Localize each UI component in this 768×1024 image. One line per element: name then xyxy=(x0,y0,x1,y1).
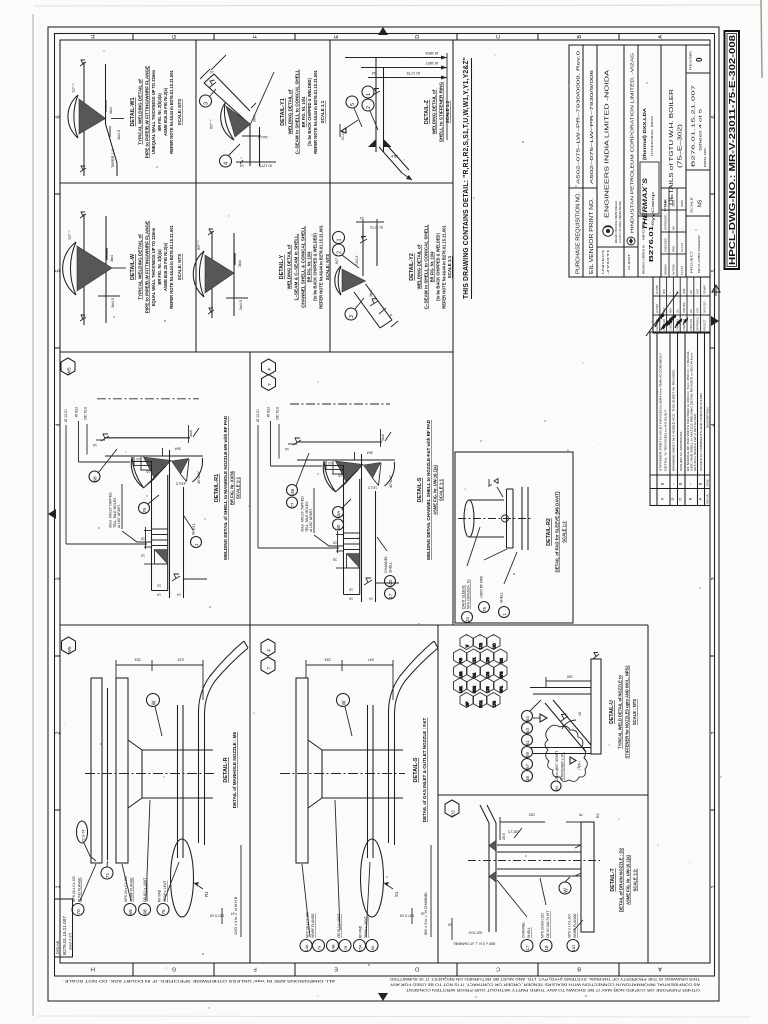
svg-text:A: A xyxy=(658,35,664,39)
svg-text:75: 75 xyxy=(161,909,167,915)
hex cluster xyxy=(454,635,508,708)
svg-text:PROJECT: PROJECT xyxy=(704,319,707,331)
svg-text:(thermal) DXX.LDA: (thermal) DXX.LDA xyxy=(642,107,647,160)
svg-text:2: 2 xyxy=(711,731,717,734)
svg-text:DETAIL of GAS INLET & OUT: DETAIL of GAS INLET & OUTLET NOZZLE : F&… xyxy=(422,718,427,823)
apex dims 3to4 / 1to1.5 xyxy=(105,100,107,112)
svg-text:1: 1 xyxy=(366,93,372,96)
svg-text:DETAIL of PAD for SLEEVE: DETAIL of PAD for SLEEVE (M6 DAVIT) xyxy=(555,491,560,572)
svg-text:DETAIL-Y2: DETAIL-Y2 xyxy=(409,253,415,280)
svg-text:ALTMNI: ALTMNI xyxy=(656,304,659,313)
svg-text:45: 45 xyxy=(578,712,582,716)
svg-text:12: 12 xyxy=(157,584,161,588)
svg-text:DETAIL 'U' REVISED to AS BUILT: DETAIL 'U' REVISED to AS BUILT. xyxy=(664,409,668,471)
dim 100 xyxy=(546,680,591,682)
text block R2 xyxy=(546,491,567,572)
svg-text:28.5: 28.5 xyxy=(502,833,506,840)
svg-text:3to4: 3to4 xyxy=(109,107,113,114)
svg-text:100:1.5: 100:1.5 xyxy=(508,830,519,834)
svg-text:DETAIL-R: DETAIL-R xyxy=(223,757,229,782)
balloon 3 xyxy=(200,95,212,107)
svg-text:16: 16 xyxy=(349,588,353,592)
svg-text:SHELL to STIFFENER RING: SHELL to STIFFENER RING xyxy=(439,82,444,143)
svg-text:WELDING DETAIL of: WELDING DETAIL of xyxy=(288,89,293,134)
svg-text:SCALE: NTS: SCALE: NTS xyxy=(177,99,182,125)
svg-text:DETAIL-S: DETAIL-S xyxy=(413,757,419,782)
svg-text:1: 1 xyxy=(337,238,343,241)
svg-text:BR FIG. Nr. 10/4: BR FIG. Nr. 10/4 xyxy=(301,96,306,127)
svg-text:DETAIL of MANHOLE NOZZLE :: DETAIL of MANHOLE NOZZLE : M5 xyxy=(232,731,237,808)
text block W xyxy=(130,221,182,313)
svg-text:Sheet 4 of 5: Sheet 4 of 5 xyxy=(699,108,703,151)
svg-text:NFO-CBD: NFO-CBD xyxy=(704,301,707,313)
svg-text:75: 75 xyxy=(142,508,148,514)
svg-text:15A: 15A xyxy=(358,944,363,951)
svg-text:OD 610: OD 610 xyxy=(276,407,280,420)
svg-text:1to1.5: 1to1.5 xyxy=(355,255,359,265)
svg-text:DRG.NR.: DRG.NR. xyxy=(703,147,707,167)
svg-text:A502–075–LW–PR–7930/9/006: A502–075–LW–PR–7930/9/006 xyxy=(589,69,594,184)
svg-text:DETAIL of DRAIN NOZZLE :: DETAIL of DRAIN NOZZLE : D2 xyxy=(619,847,624,912)
svg-text:LT5: LT5 xyxy=(486,687,490,693)
balloon 68 xyxy=(89,471,100,482)
svg-text:SCALE : NTS: SCALE : NTS xyxy=(632,699,637,725)
shell cross-section xyxy=(169,450,171,598)
svg-text:79: 79 xyxy=(317,945,322,950)
svg-text:SP: SP xyxy=(465,701,469,706)
weld symbol triangle xyxy=(540,714,547,722)
svg-text:LT4: LT4 xyxy=(486,672,490,678)
svg-text:R1: R1 xyxy=(204,891,209,897)
svg-text:(75–E–302): (75–E–302) xyxy=(678,123,684,168)
svg-text:6: 6 xyxy=(56,115,62,118)
svg-text:A: A xyxy=(658,966,662,972)
svg-text:2: 2 xyxy=(56,731,62,734)
svg-text:10: 10 xyxy=(136,457,140,461)
svg-text:4: 4 xyxy=(711,423,717,426)
svg-text:3: 3 xyxy=(204,102,210,105)
svg-text:W5: W5 xyxy=(67,367,73,375)
svg-text:SP2: SP2 xyxy=(499,672,503,679)
svg-text:OD 610 x 18WT: OD 610 x 18WT xyxy=(337,914,341,938)
svg-text:61: 61 xyxy=(525,740,530,745)
svg-text:DETAIL-Z: DETAIL-Z xyxy=(424,99,430,124)
hex marker W5 xyxy=(61,358,75,375)
centerline xyxy=(468,860,600,862)
svg-text:GB: GB xyxy=(690,290,693,294)
svg-text:ENGINEERS INDIA LIMITED -NOID: ENGINEERS INDIA LIMITED -NOIDA xyxy=(605,69,611,218)
svg-text:WORKS ORDER Nr.: WORKS ORDER Nr. xyxy=(642,244,646,274)
svg-text:STIFFENER for NOZZLES upto: STIFFENER for NOZZLES upto AND INCL. NPS… xyxy=(625,665,630,759)
conical shell diagonal going down-right xyxy=(366,284,393,320)
dims xyxy=(379,308,386,314)
text block W1 xyxy=(130,66,182,158)
svg-text:16: 16 xyxy=(448,923,452,927)
svg-text:W: W xyxy=(564,888,570,893)
svg-text:LG1: LG1 xyxy=(459,686,463,693)
svg-text:14: 14 xyxy=(360,216,364,220)
panel DETAIL-W xyxy=(63,212,182,325)
svg-text:Ø 622: Ø 622 xyxy=(267,407,271,417)
svg-text:SCALE: NTS: SCALE: NTS xyxy=(177,254,182,280)
zone numbers right margin xyxy=(711,115,717,888)
svg-text:ASME FIG. Nr. UW-16.1(a): ASME FIG. Nr. UW-16.1(a) xyxy=(433,464,438,514)
svg-text:860 ± 3 to ⊥ of CHANNEL: 860 ± 3 to ⊥ of CHANNEL xyxy=(424,892,428,935)
svg-text:64: 64 xyxy=(525,716,530,721)
svg-text:11.5.15: 11.5.15 xyxy=(680,242,684,252)
signature grid below title block xyxy=(646,277,710,336)
balloons 14B 77 xyxy=(287,485,298,496)
balloon 75 rf pad xyxy=(479,602,490,613)
svg-text:14D: 14D xyxy=(388,580,393,588)
svg-text:WELDING DETAIL of: WELDING DETAIL of xyxy=(417,244,422,289)
svg-text:DETAIL-S: DETAIL-S xyxy=(417,477,423,502)
svg-text:DET-38 for NOZZLE F&T in DET.S: DET-38 for NOZZLE F&T in DET.SH.SEC. xyxy=(693,413,697,471)
svg-text:at 180° APART.: at 180° APART. xyxy=(309,508,313,532)
svg-text:STIFFENER (PART Nr.90) NT REVI: STIFFENER (PART Nr.90) NT REVISED to 5MM… xyxy=(659,353,663,471)
svg-text:KVS: KVS xyxy=(697,289,700,294)
svg-text:D2: D2 xyxy=(499,658,503,663)
svg-text:F: F xyxy=(253,34,259,38)
svg-text:DETAIL-T: DETAIL-T xyxy=(610,868,616,892)
stiffener diagonal xyxy=(545,703,586,752)
svg-text:SCALE: NTS: SCALE: NTS xyxy=(325,254,330,280)
svg-text:2Nos.@60° APART: 2Nos.@60° APART xyxy=(555,751,559,780)
svg-text:15: 15 xyxy=(333,541,337,545)
svg-text:D: D xyxy=(415,35,421,39)
svg-text:Ø 1210: Ø 1210 xyxy=(64,410,68,422)
svg-text:MNI: MNI xyxy=(670,308,673,313)
svg-text:OD 60.3x8.74 WT: OD 60.3x8.74 WT xyxy=(546,911,550,938)
svg-text:B: B xyxy=(688,497,693,500)
panel DETAIL-R (manhole nozzle M5) xyxy=(62,637,249,937)
extension line past apex xyxy=(251,72,275,124)
svg-text:MFG.NR.: MFG.NR. xyxy=(642,220,646,240)
dim 153/219 xyxy=(116,664,203,666)
panel DETAIL-U xyxy=(454,635,638,792)
svg-text:D2: D2 xyxy=(451,810,456,816)
svg-text:G: G xyxy=(172,35,178,39)
3to4 gap dims xyxy=(188,425,190,443)
svg-text:153: 153 xyxy=(135,658,141,662)
svg-text:HINDUSTAN PETROLEUM CORPORAT: HINDUSTAN PETROLEUM CORPORATION LIMITED,… xyxy=(630,53,636,233)
svg-text:A502–075–LW–PR–7930/0009, Rev: A502–075–LW–PR–7930/0009, Rev.0 xyxy=(576,50,581,184)
svg-text:3: 3 xyxy=(349,315,355,318)
nozzle centerline xyxy=(97,398,199,400)
weld cone Y1 xyxy=(226,106,251,137)
svg-text:CHANNEL SHELL & CONICAL SH: CHANNEL SHELL & CONICAL SHELL xyxy=(301,226,306,308)
svg-text:14: 14 xyxy=(240,164,244,168)
svg-text:L–SEAM & C–SEAM in SHELL,: L–SEAM & C–SEAM in SHELL, xyxy=(294,234,299,301)
svg-text:ASME B16.25 FIG Nr.2(a): ASME B16.25 FIG Nr.2(a) xyxy=(163,242,168,291)
svg-text:CHANNEL: CHANNEL xyxy=(384,556,388,573)
svg-text:AS CONFIDENTIAL INFORMATION IN: AS CONFIDENTIAL INFORMATION IN CONNECTIO… xyxy=(389,983,700,987)
weld cone Y xyxy=(205,255,234,293)
channel shell cross-section xyxy=(361,454,363,602)
dims 15/16 xyxy=(336,534,344,536)
svg-text:DAVIT SLEEVE: DAVIT SLEEVE xyxy=(462,584,466,609)
svg-text:PIPE to PIPE/B.W FITTING/WN: PIPE to PIPE/B.W FITTING/WNRF FLANGE xyxy=(145,66,150,158)
diameter dim lines xyxy=(345,57,447,59)
centerline xyxy=(458,518,532,520)
svg-text:PIPE to PIPE/B.W FITTING/WN: PIPE to PIPE/B.W FITTING/WNRF FLANGE xyxy=(145,221,150,313)
svg-text:REFER NOTE Nr.4&44 in B276: REFER NOTE Nr.4&44 in B276.01.15.21.001 xyxy=(442,225,447,309)
svg-text:10: 10 xyxy=(328,461,332,465)
svg-text:RF PAD: RF PAD xyxy=(359,925,363,938)
small mark under stamp xyxy=(712,285,720,292)
svg-text:0: 0 xyxy=(695,57,704,62)
svg-text:182: 182 xyxy=(571,944,576,951)
balloon 75 xyxy=(139,503,150,514)
shell plates xyxy=(521,487,523,550)
svg-text:LT2: LT2 xyxy=(479,643,483,649)
svg-text:18: 18 xyxy=(544,945,549,950)
svg-text:NS: NS xyxy=(698,199,704,207)
svg-text:5: 5 xyxy=(56,269,62,272)
svg-text:TYPICAL WELDING DETAIL of: TYPICAL WELDING DETAIL of xyxy=(138,234,143,300)
svg-text:LT6: LT6 xyxy=(486,658,490,664)
svg-text:WNRF FLANGE: WNRF FLANGE xyxy=(311,913,315,938)
svg-text:14WT RF PAD: 14WT RF PAD xyxy=(480,575,484,598)
revision table xyxy=(650,332,710,506)
svg-text:(to be BACK CHIPPED & WEL: (to be BACK CHIPPED & WELDED) xyxy=(307,77,312,145)
svg-text:16: 16 xyxy=(333,558,337,562)
svg-text:REV.NR.: REV.NR. xyxy=(706,493,710,504)
svg-text:Ø 1803: Ø 1803 xyxy=(426,51,438,55)
svg-text:3to4: 3to4 xyxy=(175,447,181,451)
corner drg-no box (scan bottom-left) xyxy=(55,899,73,957)
svg-text:1to1.5: 1to1.5 xyxy=(368,486,377,490)
centering arrow marks xyxy=(378,27,388,35)
svg-text:HPCL-DWG-NO.: MR-V-23011-75-E-: HPCL-DWG-NO.: MR-V-23011-75-E-302-008 xyxy=(727,35,737,265)
shell plate vertical xyxy=(362,225,364,276)
pad plates xyxy=(506,489,508,548)
svg-text:71: 71 xyxy=(105,873,111,879)
svg-text:3: 3 xyxy=(711,577,717,580)
THIS DRAWING CONTAINS DETAIL note xyxy=(463,57,472,299)
svg-text:A GOVT OF INDIA UNDERTAKING: A GOVT OF INDIA UNDERTAKING xyxy=(618,201,622,243)
zone letters top margin xyxy=(91,34,664,38)
svg-text:R2: R2 xyxy=(596,813,600,818)
balloon 1 shell xyxy=(499,607,510,618)
svg-text:2: 2 xyxy=(337,251,343,254)
svg-text:3to4: 3to4 xyxy=(253,115,257,122)
WNRF flange bar xyxy=(116,678,128,863)
gasket line xyxy=(107,688,109,860)
svg-text:B276.01: B276.01 xyxy=(649,226,655,262)
svg-text:WELDING DETAIL CHANNEL SHEL: WELDING DETAIL CHANNEL SHELL to NOZZLE-F… xyxy=(426,419,431,560)
svg-text:EIL VENDOR PRINT NO.: EIL VENDOR PRINT NO. xyxy=(589,198,595,274)
svg-text:6: 6 xyxy=(711,115,717,118)
stiffener ring diagonal band xyxy=(379,147,402,173)
svg-text:F: F xyxy=(267,648,273,651)
svg-text:UNEQUAL WALL THICKNESS UP: UNEQUAL WALL THICKNESS UP TO 22mm xyxy=(151,70,156,154)
panel DETAIL-W1 xyxy=(68,60,182,176)
svg-text:DETAILS of TGTU W.H. BOILE: DETAILS of TGTU W.H. BOILER xyxy=(669,89,675,205)
svg-text:C: C xyxy=(678,497,683,500)
rf pad plates xyxy=(177,705,179,858)
detail ellipse R1 xyxy=(171,839,194,917)
signature squiggles xyxy=(655,314,664,327)
svg-text:33: 33 xyxy=(465,617,470,622)
svg-text:NAME: NAME xyxy=(664,199,668,207)
svg-text:BR FIG. Nr. XX/36: BR FIG. Nr. XX/36 xyxy=(230,470,235,505)
conical shell diagonal plate xyxy=(204,83,250,124)
svg-text:(Typ.): (Typ.) xyxy=(577,761,581,770)
nozzle walls xyxy=(530,687,591,689)
svg-text:1: 1 xyxy=(56,885,62,888)
svg-text:SCALE 1:1: SCALE 1:1 xyxy=(320,100,325,123)
svg-text:REFER NOTE Nr.4&44 in B276: REFER NOTE Nr.4&44 in B276.01.15.21.001 xyxy=(313,70,318,154)
nozzle pipe bar xyxy=(591,659,601,754)
text block U xyxy=(609,665,637,759)
svg-text:14B: 14B xyxy=(331,944,336,951)
svg-text:UNITECS: UNITECS xyxy=(601,250,605,274)
svg-text:REFER NOTE Nr.4&44 in B276: REFER NOTE Nr.4&44 in B276.01.15.21.001 xyxy=(169,70,174,154)
svg-text:C–SEAM in SHELL to CONICAL: C–SEAM in SHELL to CONICAL SHELL xyxy=(295,69,300,154)
svg-text:3⇅6: 3⇅6 xyxy=(391,154,398,158)
svg-text:3: 3 xyxy=(56,577,62,580)
svg-text:PROJECT: PROJECT xyxy=(690,251,694,273)
panel DETAIL-S (middle, channel shell joint) xyxy=(256,359,444,602)
drawing frame: mid border xyxy=(55,34,715,977)
svg-text:1to1.5: 1to1.5 xyxy=(117,130,121,140)
drawing frame: inner panel border xyxy=(60,40,710,963)
dims 15 / 12 xyxy=(144,530,152,532)
svg-text:59: 59 xyxy=(525,752,530,757)
zone numbers left margin xyxy=(56,115,62,888)
svg-text:B276.01.15.21.007: B276.01.15.21.007 xyxy=(691,84,696,167)
svg-text:4: 4 xyxy=(56,423,62,426)
weld cone W1 xyxy=(79,99,106,134)
text block S xyxy=(413,718,427,823)
svg-text:ISSUED for APPROVAL: ISSUED for APPROVAL xyxy=(679,430,683,471)
balloons 15A 80 xyxy=(333,507,344,518)
zone ticks top/bottom xyxy=(133,34,619,977)
svg-text:ASME B16.25 FIG Nr.2(a): ASME B16.25 FIG Nr.2(a) xyxy=(163,87,168,136)
svg-text:WELDING DETAIL of SHELL to: WELDING DETAIL of SHELL to MANHOLE NOZZL… xyxy=(223,415,228,560)
davit sleeve cylinder xyxy=(469,499,504,501)
svg-text:ASME FIG. Nr. UW-16.1(a): ASME FIG. Nr. UW-16.1(a) xyxy=(626,854,631,904)
svg-text:H: H xyxy=(91,966,95,972)
svg-text:70: 70 xyxy=(579,813,583,817)
neck walls xyxy=(497,844,581,846)
svg-text:77: 77 xyxy=(290,502,295,507)
svg-text:60°⁻⁵: 60°⁻⁵ xyxy=(196,240,201,250)
svg-text:TYPICAL WELDING DETAIL of: TYPICAL WELDING DETAIL of xyxy=(138,79,143,145)
svg-text:70°⁻⁵: 70°⁻⁵ xyxy=(67,230,72,240)
text block R1 xyxy=(214,415,241,560)
text block Y2 xyxy=(409,224,452,309)
svg-text:NPS 2(M6)SCH. 40: NPS 2(M6)SCH. 40 xyxy=(467,579,471,609)
svg-text:BD2: BD2 xyxy=(472,686,476,693)
balloons 14D 17 + CHANNEL SHELL xyxy=(385,576,396,587)
svg-text:DRAWN: DRAWN xyxy=(664,265,668,275)
THERMAX logo block xyxy=(640,162,659,214)
svg-text:WELDING DETAIL of: WELDING DETAIL of xyxy=(432,89,437,134)
svg-text:219: 219 xyxy=(178,658,184,662)
shell curved plates xyxy=(389,641,435,843)
svg-text:DETAIL-Y1: DETAIL-Y1 xyxy=(280,98,286,125)
svg-text:100: 100 xyxy=(567,675,573,679)
svg-text:BR FIG. Nr. 10/4: BR FIG. Nr. 10/4 xyxy=(430,251,435,282)
weld cone pair R1 xyxy=(144,457,172,479)
svg-text:D: D xyxy=(670,497,675,500)
svg-text:LT1: LT1 xyxy=(472,658,476,664)
svg-text:TAPER 1:3: TAPER 1:3 xyxy=(111,149,115,168)
svg-text:THIS DRAWING IS THE PROPERTY O: THIS DRAWING IS THE PROPERTY OF THERMAL … xyxy=(389,977,700,981)
pad cross-section xyxy=(343,465,345,595)
WNRF flange bar xyxy=(296,678,308,863)
svg-text:(to be BACK CHIPPED & WEL: (to be BACK CHIPPED & WELDED) xyxy=(436,232,441,300)
svg-text:SHELL: SHELL xyxy=(527,927,531,938)
svg-text:16: 16 xyxy=(338,474,342,478)
svg-text:2: 2 xyxy=(366,106,372,109)
balloons 1 2 xyxy=(333,232,345,244)
svg-text:SCALE: SCALE xyxy=(690,197,694,213)
hex marker D2 xyxy=(445,800,459,817)
dim 14 on diagonal end xyxy=(200,69,210,79)
svg-text:68: 68 xyxy=(93,476,99,482)
45 deg arc xyxy=(562,720,576,729)
panel DETAIL-R2 box xyxy=(455,452,573,623)
svg-text:DETAIL-R2: DETAIL-R2 xyxy=(546,518,552,546)
svg-text:C: C xyxy=(496,966,500,972)
svg-text:HYDERABAD, INDIA: HYDERABAD, INDIA xyxy=(650,116,654,156)
svg-text:153: 153 xyxy=(529,813,535,817)
centerline xyxy=(85,773,215,775)
svg-text:DETAIL-R1: DETAIL-R1 xyxy=(214,474,220,502)
diameter dim lines xyxy=(65,425,67,544)
svg-text:TYPICAL WELD DETAIL of NOZ: TYPICAL WELD DETAIL of NOZZLE to xyxy=(618,675,623,749)
svg-text:1: 1 xyxy=(194,543,200,546)
text block Y1 xyxy=(280,69,325,154)
svg-text:SCALE 1:2: SCALE 1:2 xyxy=(562,521,567,543)
weld cone Y2 xyxy=(342,269,366,292)
svg-text:THIS DRAWING CONTAINS DETAI: THIS DRAWING CONTAINS DETAIL: "R,R1,R2,S… xyxy=(463,57,470,299)
svg-text:247: 247 xyxy=(368,658,374,662)
svg-text:B276.01.15.21.007: B276.01.15.21.007 xyxy=(62,916,67,955)
svg-text:DETAIL-W: DETAIL-W xyxy=(130,253,136,280)
panel DETAIL-Y xyxy=(193,225,330,318)
panel DETAIL-T (drain nozzle D2) xyxy=(445,800,638,952)
weld cones xyxy=(336,461,364,483)
balloon 1 SHELL xyxy=(191,537,202,548)
svg-text:A: A xyxy=(698,497,703,500)
panel DETAIL-Y2 xyxy=(333,216,453,328)
dim 153/247 xyxy=(306,664,393,666)
detail ellipse S1 xyxy=(361,839,384,917)
svg-text:860 ± 3 to ⊥ of CHANNEL: 860 ± 3 to ⊥ of CHANNEL xyxy=(453,942,495,946)
svg-text:14: 14 xyxy=(285,447,289,451)
svg-text:Ø 1210: Ø 1210 xyxy=(256,410,260,422)
svg-text:(to be BACK CHIPPED & WEL: (to be BACK CHIPPED & WELDED) xyxy=(313,232,318,300)
svg-text:DETAIL-U: DETAIL-U xyxy=(609,700,615,724)
svg-text:80: 80 xyxy=(336,524,341,529)
svg-text:C–SEAM in SHELL to CONICAL: C–SEAM in SHELL to CONICAL SHELL xyxy=(424,224,429,309)
typ note xyxy=(570,757,576,764)
balloon 3 xyxy=(345,308,357,320)
balloon 4 xyxy=(220,155,232,167)
svg-text:GK: GK xyxy=(672,226,676,230)
svg-text:GK: GK xyxy=(677,309,680,313)
svg-text:72 to 74: 72 to 74 xyxy=(82,830,86,842)
svg-text:1to1.5: 1to1.5 xyxy=(176,482,185,486)
svg-text:1to1.5: 1to1.5 xyxy=(111,298,115,308)
svg-text:17: 17 xyxy=(525,945,530,950)
svg-text:B: B xyxy=(660,482,665,485)
svg-text:ZONE: ZONE xyxy=(706,479,710,486)
